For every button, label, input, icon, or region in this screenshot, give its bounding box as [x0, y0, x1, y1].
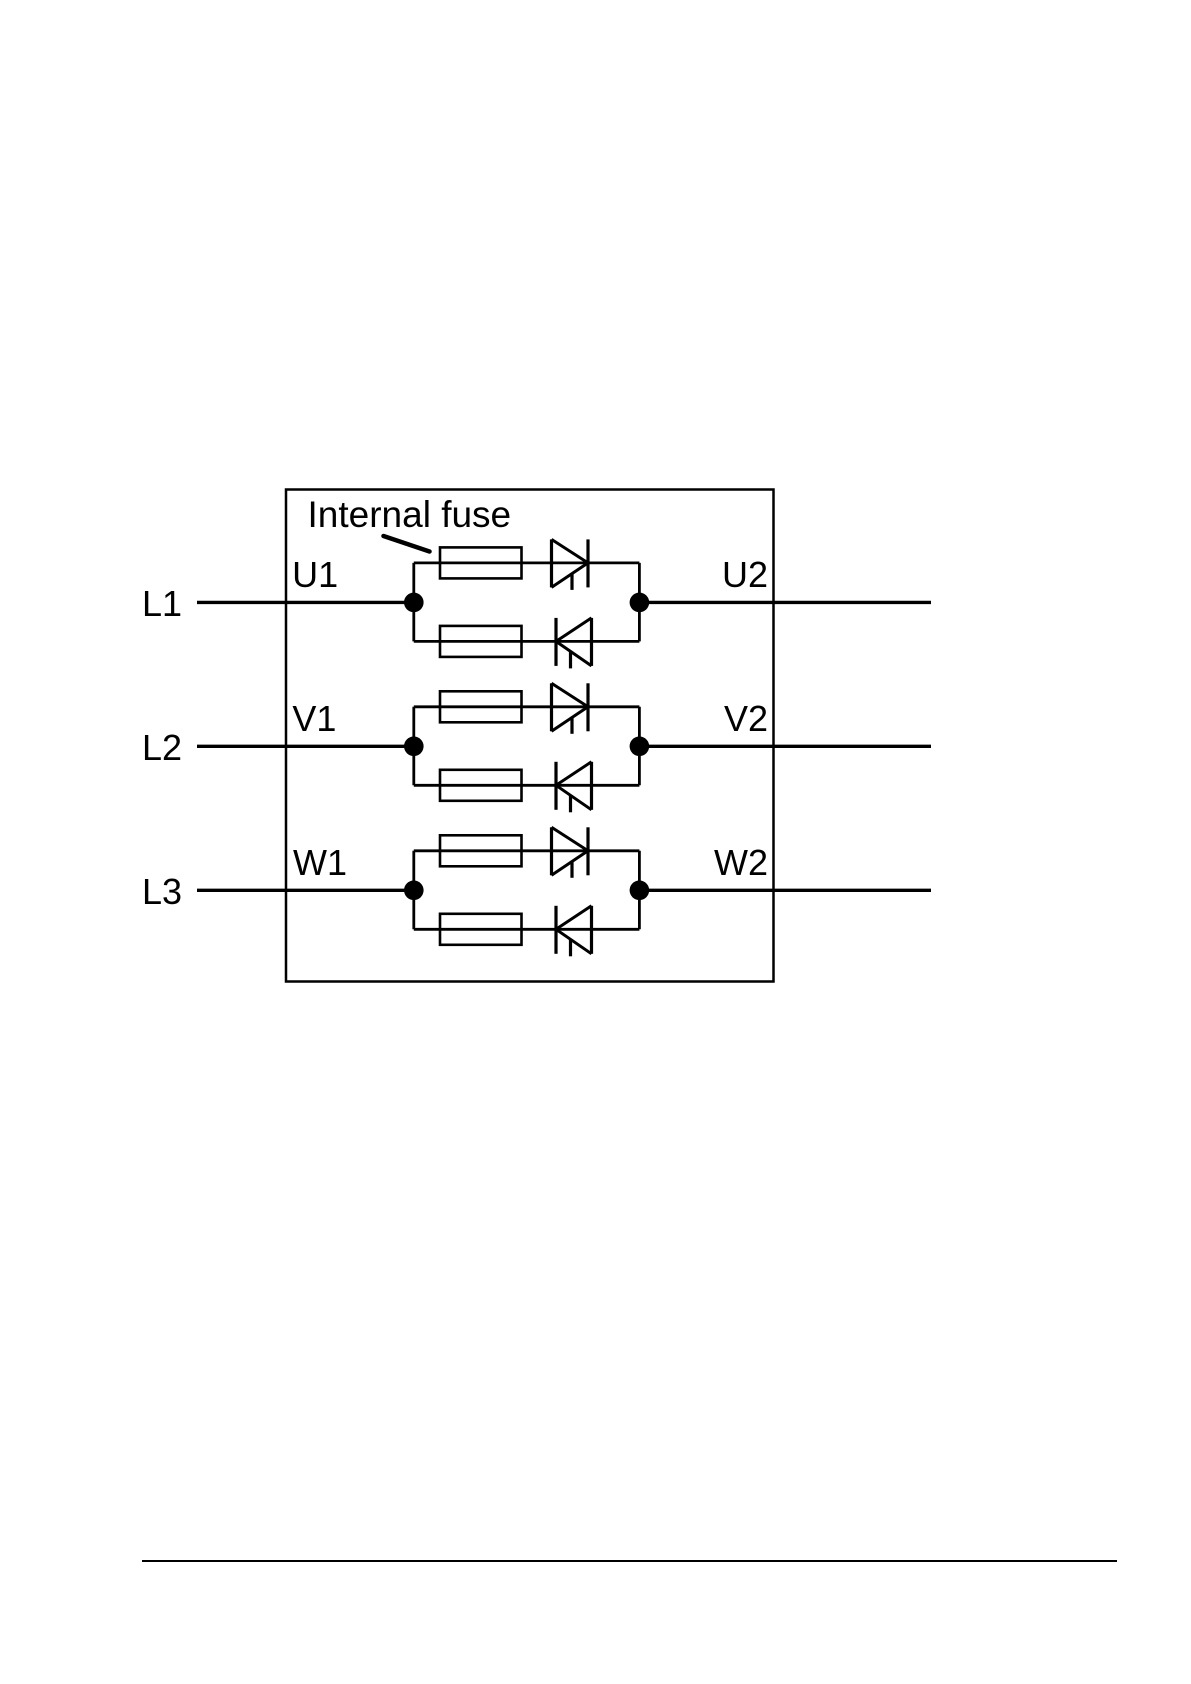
svg-text:U1: U1 [292, 554, 338, 595]
svg-text:L1: L1 [142, 583, 182, 624]
svg-text:W2: W2 [714, 842, 768, 883]
svg-text:L3: L3 [142, 871, 182, 912]
svg-text:L2: L2 [142, 727, 182, 768]
svg-text:U2: U2 [722, 554, 768, 595]
svg-text:Internal fuse: Internal fuse [308, 494, 512, 535]
svg-text:W1: W1 [293, 842, 347, 883]
svg-text:V2: V2 [724, 698, 768, 739]
svg-text:V1: V1 [292, 698, 336, 739]
